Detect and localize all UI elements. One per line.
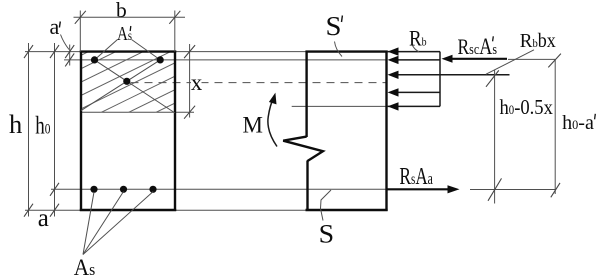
wire: tension rebar line	[51, 188, 400, 190]
tick line B top	[50, 45, 59, 58]
beam left edge lower	[306, 161, 308, 212]
svg-text:h: h	[9, 109, 22, 139]
rebar dot centre	[123, 78, 130, 85]
svg-text:As: As	[74, 255, 96, 278]
rebar dot top-left	[91, 56, 98, 63]
block arrow 1	[388, 47, 399, 55]
rebar dot bottom-3	[149, 186, 156, 193]
dimension line h0/a (line B)	[54, 43, 56, 217]
leader A's to right top bar	[132, 40, 161, 60]
block arrow 2 shaft	[397, 59, 440, 61]
svg-text:x: x	[191, 70, 203, 95]
tick dim1 top	[486, 70, 499, 86]
svg-text:a: a	[50, 14, 60, 39]
leaders As to bottom bars	[83, 192, 94, 255]
zigzag crack	[283, 137, 323, 161]
svg-text:h0: h0	[35, 113, 50, 140]
leader Rbbx	[486, 50, 534, 74]
X-cross diagonal from right top bar to bottom left	[81, 60, 160, 111]
tick dim1 bottom	[488, 178, 502, 200]
tick line A top	[24, 45, 33, 58]
section outline: right edge	[174, 51, 176, 212]
tick x bottom	[184, 106, 195, 119]
tick b left	[75, 11, 86, 24]
dimension line h0-0.5x (dim1)	[494, 70, 496, 204]
svg-text:As: As	[117, 23, 132, 45]
svg-text:RscAs: RscAs	[458, 34, 498, 59]
extension line: top rebar level T2	[64, 59, 386, 61]
svg-text:Rbbx: Rbbx	[520, 30, 556, 52]
svg-text:RsAa: RsAa	[399, 163, 433, 190]
svg-text:a: a	[38, 205, 49, 232]
stub to dim2 top	[508, 58, 555, 60]
stress block top line	[387, 51, 440, 53]
label x	[191, 79, 202, 91]
tick line B bottom	[50, 204, 59, 217]
svg-text:M: M	[243, 113, 263, 138]
stress block bottom line	[387, 105, 440, 107]
leader Rb	[413, 46, 420, 52]
rebar dot bottom-1	[90, 186, 97, 193]
a' stub vertical	[69, 45, 71, 66]
leader a'	[61, 35, 70, 50]
tick dim2 top	[548, 54, 561, 68]
RsAa force arrow	[387, 188, 449, 190]
block arrow 5	[388, 102, 399, 110]
rebar dot top-right	[157, 56, 164, 63]
leader S	[321, 190, 332, 221]
RscA's force arrow	[452, 58, 507, 60]
dimension line x depth	[189, 44, 191, 118]
leader A's to left top bar	[95, 40, 118, 60]
tick b right	[169, 11, 180, 24]
section outline: left edge	[80, 51, 82, 212]
svg-text:h0-0.5x: h0-0.5x	[500, 95, 554, 119]
block arrow 3 (Rb bx resultant) shaft	[397, 74, 510, 76]
tick dim2 bottom	[551, 183, 560, 197]
tick a' stub bottom	[65, 53, 74, 66]
wire: compression zone bottom line in beam	[292, 105, 386, 107]
beam bottom edge	[306, 209, 388, 211]
wire: hatch-bottom (depth x) extension line	[81, 111, 194, 113]
dimension line h (line A)	[28, 43, 30, 217]
beam top edge	[306, 50, 388, 52]
section outline: top edge	[80, 50, 176, 52]
tick line B at rebar line	[50, 183, 59, 196]
moment arrow M	[268, 96, 277, 147]
tick line A bottom	[24, 204, 33, 217]
svg-text:h0-a: h0-a	[562, 112, 594, 134]
beam right edge	[385, 51, 387, 212]
stress block right edge	[439, 52, 441, 107]
section outline: bottom edge	[80, 209, 176, 211]
block arrow 4 shaft	[397, 91, 440, 93]
svg-text:Rb: Rb	[409, 26, 427, 51]
beam left edge upper	[305, 51, 307, 138]
X-cross diagonal from left top bar to bottom right	[95, 60, 176, 113]
svg-text:S: S	[319, 220, 335, 249]
extension line b right	[174, 11, 176, 52]
leader S'	[335, 42, 343, 57]
wire: bottom edge extension line	[25, 209, 387, 211]
extension line: section top level T1	[25, 51, 440, 53]
tick x top	[184, 45, 195, 58]
extension line b left	[79, 11, 81, 52]
svg-text:S: S	[326, 11, 342, 41]
tick a' stub top	[65, 45, 74, 58]
dashed neutral-axis line	[131, 82, 387, 84]
svg-text:b: b	[116, 0, 127, 22]
hatched compression zone	[74, 6, 181, 152]
bottom reference segment right	[470, 189, 555, 191]
rebar dot bottom-2	[120, 186, 127, 193]
dimension line b	[74, 16, 186, 18]
dimension line h0-a' (dim2)	[554, 59, 556, 194]
